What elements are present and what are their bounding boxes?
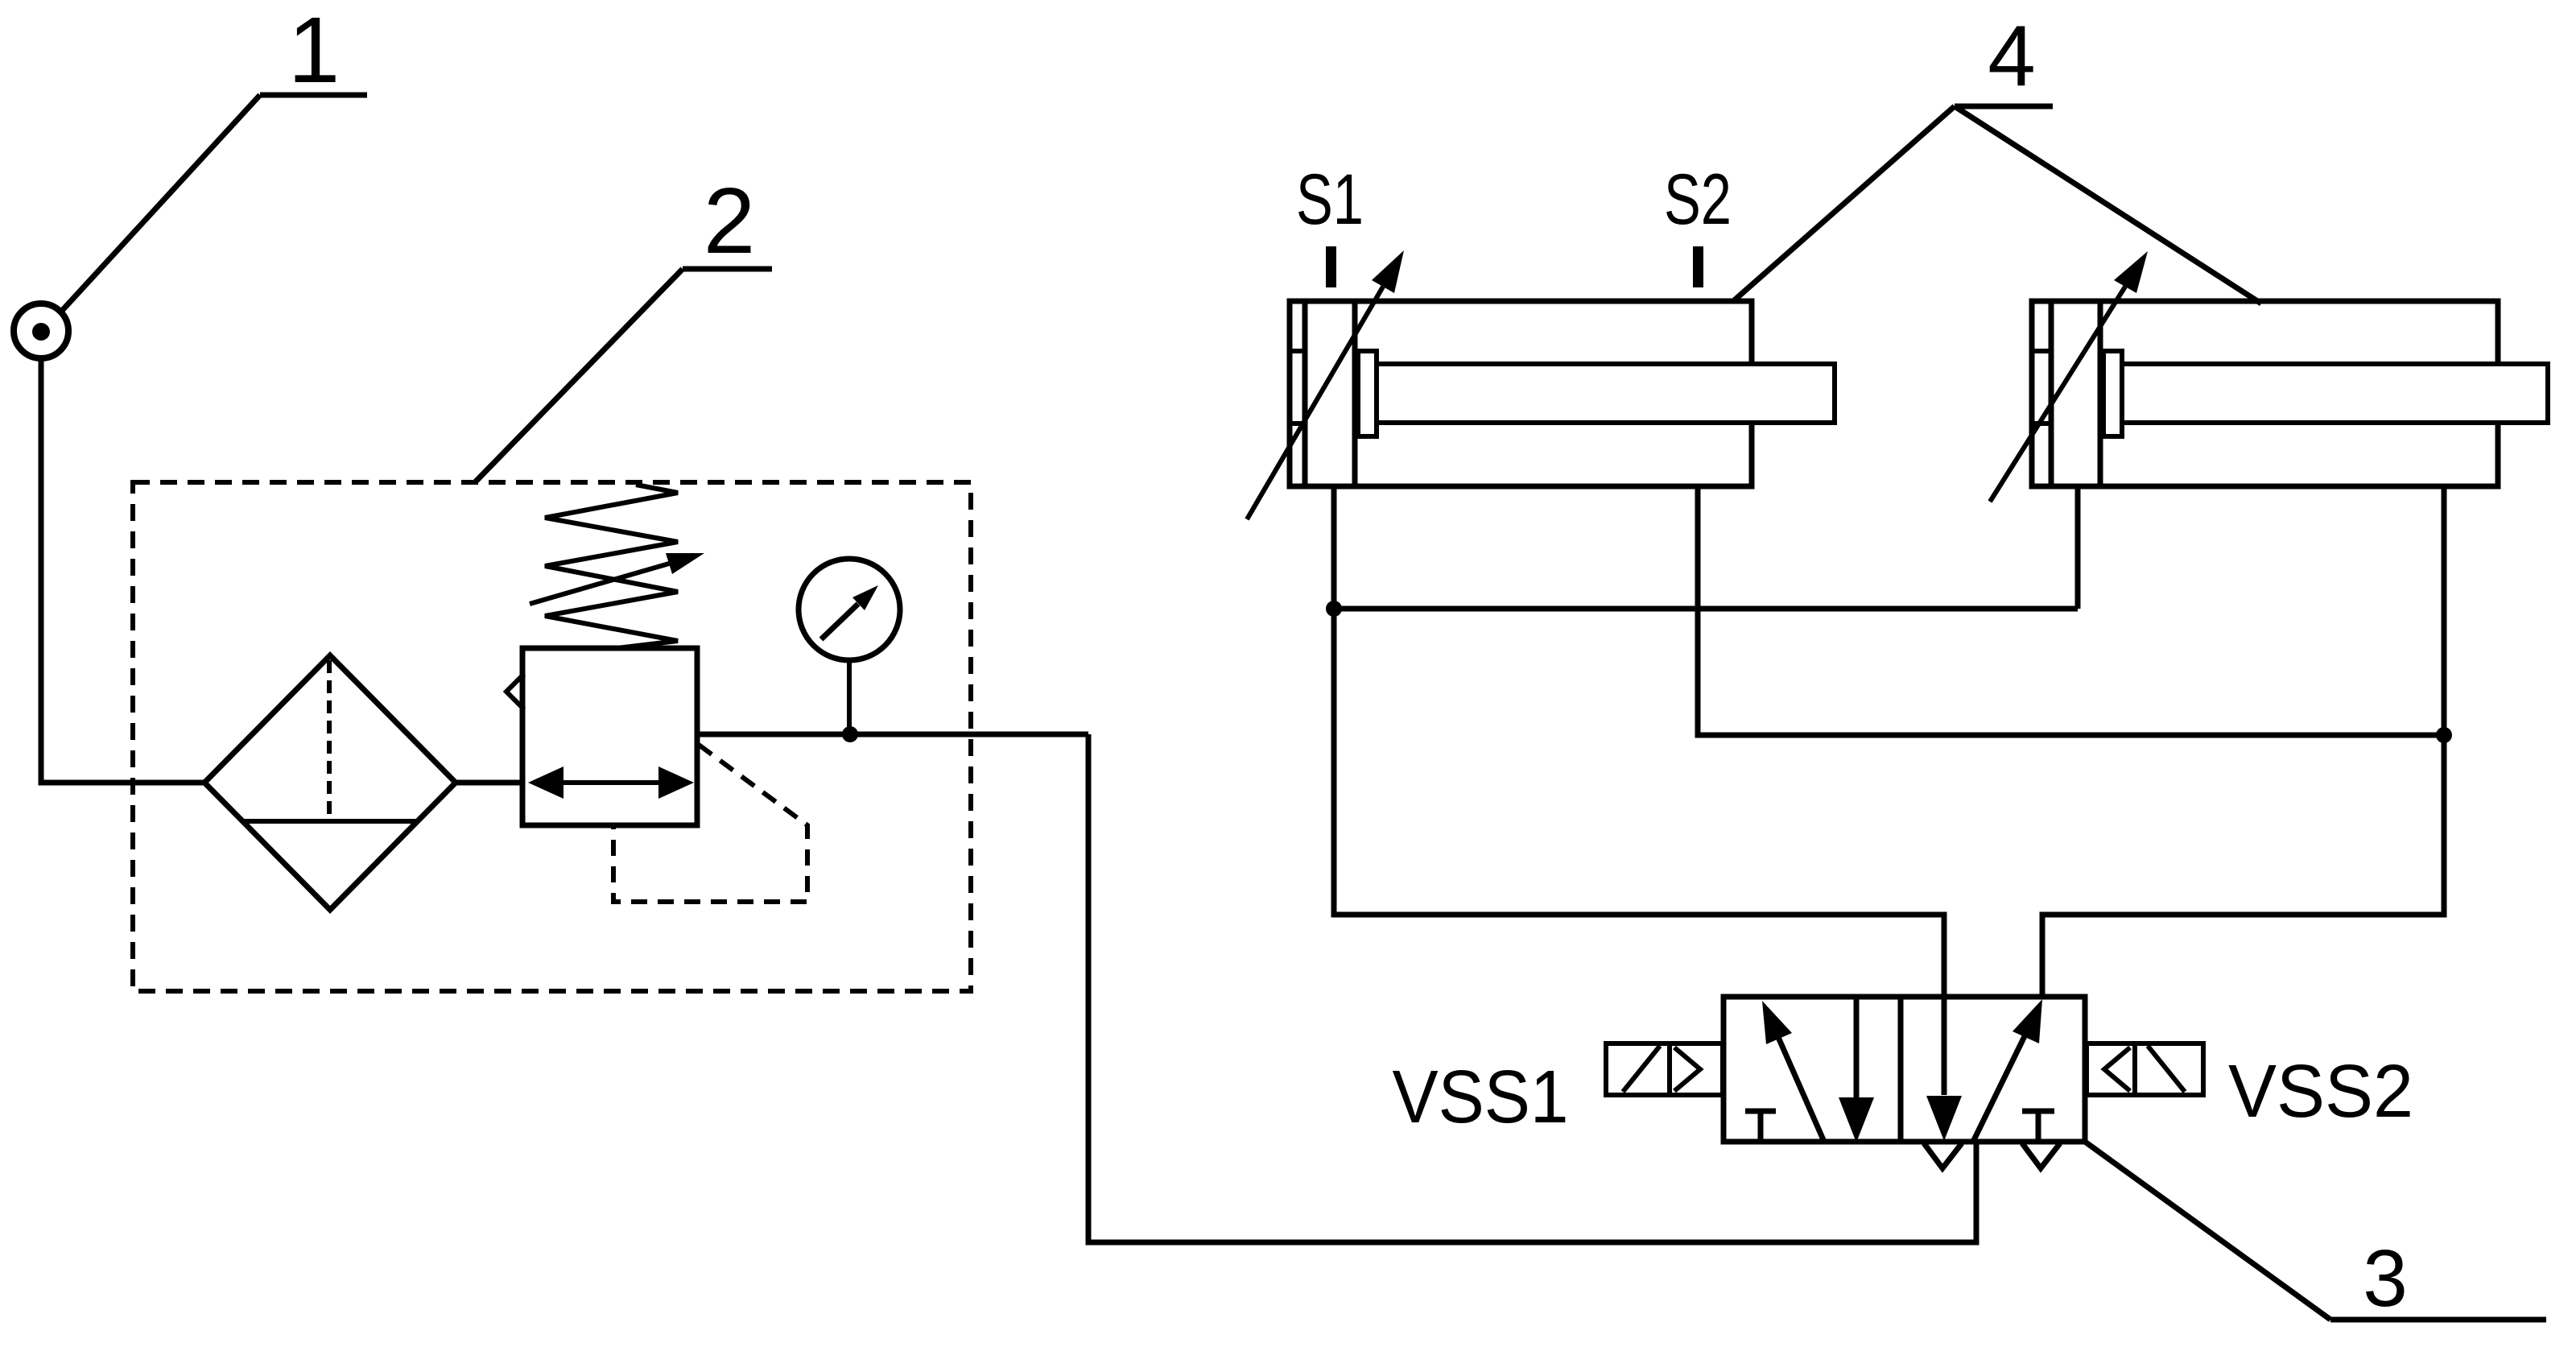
cylinder B (right) (2032, 301, 2548, 486)
valve left chamber blocked port T (1745, 1111, 1776, 1142)
label 4 (1732, 7, 2261, 304)
label 1 (60, 0, 367, 312)
svg-text:VSS1: VSS1 (1393, 1055, 1569, 1138)
valve right chamber flow arrow (1973, 999, 2042, 1142)
valve left chamber flow arrow (1762, 1001, 1824, 1142)
regulator R (506, 648, 697, 825)
pressure gauge (799, 559, 900, 734)
regulator pilot dashed line (613, 745, 807, 902)
solenoid VSS2 (2087, 1043, 2203, 1095)
wire regulator output (697, 732, 1088, 738)
wire source to filter (41, 358, 204, 783)
valve exhaust chevron right (2022, 1143, 2060, 1168)
cylinder A left port wire to valve port 4 (1334, 486, 1944, 997)
wire junction A to cylinder B left port (1334, 606, 2078, 612)
svg-text:3: 3 (2363, 1233, 2408, 1324)
valve 3 body (5/2 directional valve) (1724, 997, 2085, 1142)
sensor S1 (1296, 159, 1364, 287)
label 2 (475, 168, 772, 482)
regulator spring (545, 485, 678, 649)
solenoid VSS1 (1606, 1043, 1723, 1095)
cylinder A (left) (1290, 301, 1835, 486)
svg-text:S2: S2 (1664, 159, 1732, 239)
valve exhaust chevron left (1924, 1143, 1962, 1168)
supply wire to valve port 1 (1088, 734, 1976, 1242)
cylinder B right port wire to valve port 2 (2042, 486, 2444, 997)
valve right chamber down arrow (1926, 997, 1962, 1141)
svg-text:4: 4 (1988, 7, 2036, 104)
service unit dashed box 2 (133, 482, 971, 991)
cylinder A cushioning arrow (1247, 250, 1404, 519)
svg-text:2: 2 (704, 168, 756, 273)
junction node B (2436, 727, 2452, 743)
wire filter to regulator (456, 780, 522, 786)
label 3 (2085, 1142, 2546, 1324)
svg-text:1: 1 (288, 0, 341, 102)
regulator adjustment arrow (530, 553, 704, 604)
svg-text:VSS2: VSS2 (2228, 1049, 2413, 1133)
junction node A (1326, 601, 1342, 617)
filter F (204, 655, 456, 910)
cylinder A right port wire (1698, 486, 2444, 735)
cylinder B left port wire (2075, 486, 2081, 609)
sensor S2 (1664, 159, 1732, 287)
compressed air source 1 (14, 304, 68, 358)
svg-text:S1: S1 (1296, 159, 1364, 239)
valve right chamber blocked port T (2022, 1111, 2054, 1142)
valve left chamber down arrow (1839, 997, 1874, 1142)
cylinder B cushioning arrow (1990, 251, 2148, 502)
junction node gauge (842, 726, 858, 742)
